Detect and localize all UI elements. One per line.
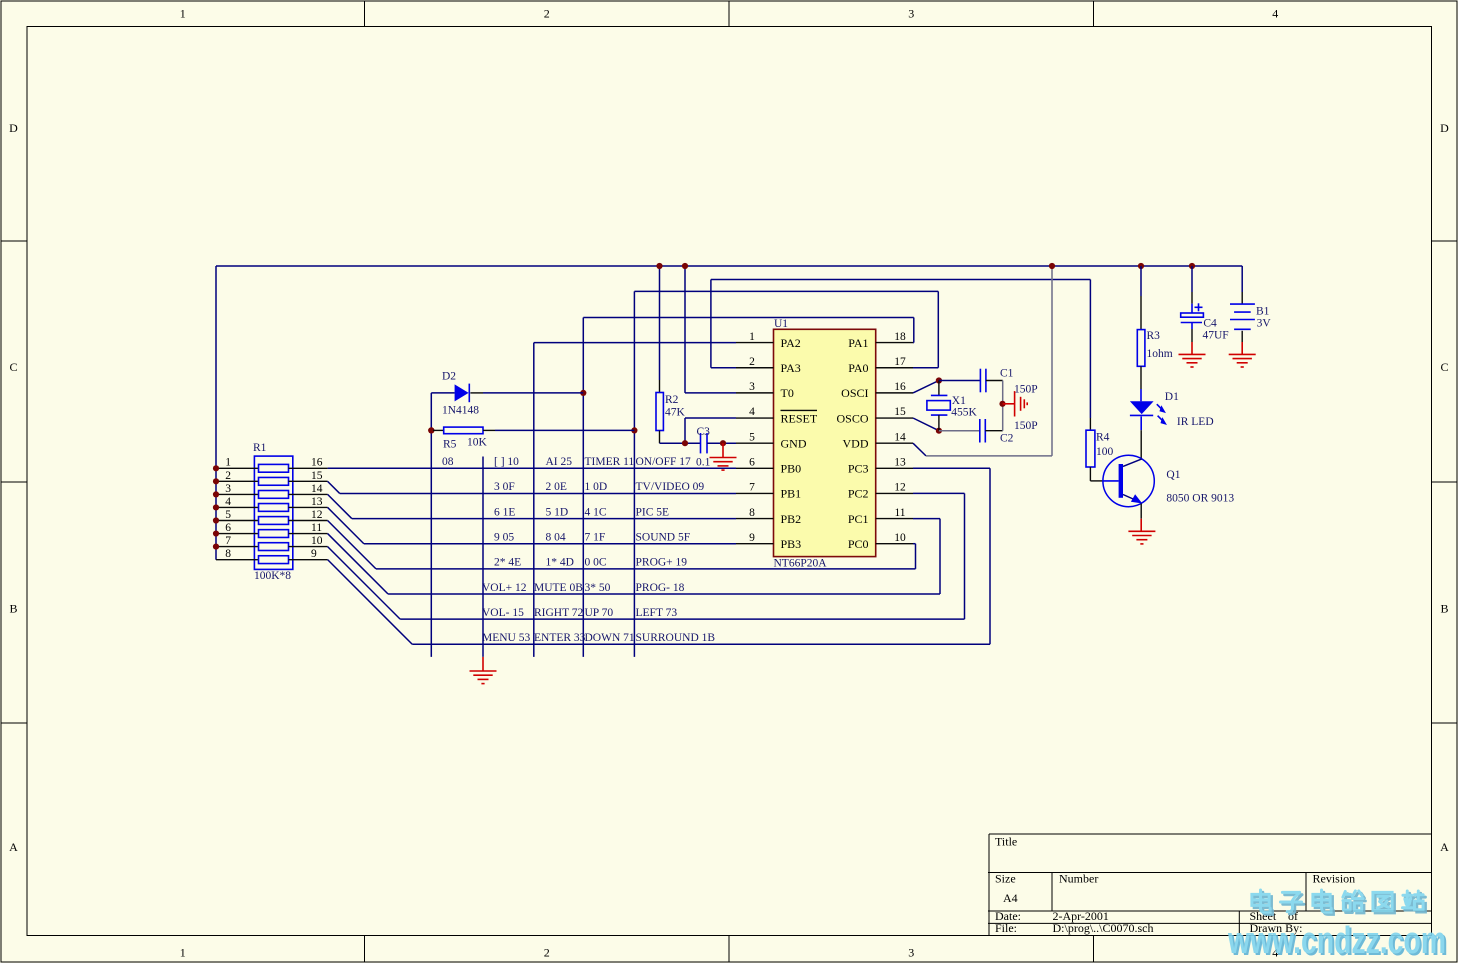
svg-text:ENTER 33: ENTER 33 [534,632,586,644]
svg-text:C2: C2 [1000,433,1014,445]
svg-text:5: 5 [225,509,231,521]
svg-text:www.cndzz.com: www.cndzz.com [1227,920,1446,962]
svg-text:TV/VIDEO 09: TV/VIDEO 09 [636,481,705,493]
svg-text:PB0: PB0 [781,462,802,476]
svg-text:100K*8: 100K*8 [254,570,291,582]
svg-text:PA3: PA3 [781,361,801,375]
svg-text:0 0C: 0 0C [585,557,607,569]
svg-text:13: 13 [311,496,323,508]
svg-text:0.1: 0.1 [696,456,711,468]
svg-text:3* 50: 3* 50 [585,582,611,594]
svg-text:RESET: RESET [781,411,818,425]
svg-text:SOUND 5F: SOUND 5F [636,532,691,544]
svg-text:Revision: Revision [1313,871,1356,885]
svg-text:455K: 455K [951,406,977,418]
svg-text:5 1D: 5 1D [546,506,569,518]
svg-text:1* 4D: 1* 4D [546,557,574,569]
svg-text:2* 4E: 2* 4E [494,557,521,569]
svg-text:08: 08 [442,456,454,468]
svg-text:6 1E: 6 1E [494,506,515,518]
svg-text:2: 2 [749,356,755,368]
svg-text:9 05: 9 05 [494,532,514,544]
svg-text:11: 11 [894,507,905,519]
svg-text:14: 14 [311,483,323,495]
svg-text:B: B [1440,602,1448,616]
svg-text:LEFT 73: LEFT 73 [636,607,678,619]
svg-text:R3: R3 [1147,330,1161,342]
svg-text:PA2: PA2 [781,336,801,350]
svg-text:B1: B1 [1256,305,1270,317]
svg-text:4: 4 [1272,7,1278,21]
svg-text:[ ] 10: [ ] 10 [494,456,519,468]
svg-text:VOL- 15: VOL- 15 [482,607,524,619]
svg-text:PC3: PC3 [848,462,869,476]
svg-text:GND: GND [781,436,807,450]
svg-text:PA1: PA1 [848,336,868,350]
svg-text:150P: 150P [1014,420,1038,432]
svg-text:12: 12 [311,509,323,521]
svg-text:DOWN 71: DOWN 71 [585,632,635,644]
svg-text:U1: U1 [774,318,788,330]
svg-text:D:\prog\..\C0070.sch: D:\prog\..\C0070.sch [1053,921,1154,935]
svg-text:3V: 3V [1257,317,1272,329]
svg-text:D: D [9,121,18,135]
svg-text:7: 7 [225,535,231,547]
svg-text:16: 16 [311,457,323,469]
svg-text:8: 8 [749,507,755,519]
svg-text:4 1C: 4 1C [585,506,607,518]
svg-text:3 0F: 3 0F [494,481,515,493]
svg-text:7: 7 [749,482,755,494]
svg-text:1N4148: 1N4148 [442,405,479,417]
svg-text:9: 9 [311,548,317,560]
svg-text:RIGHT 72: RIGHT 72 [534,607,584,619]
svg-text:1 0D: 1 0D [585,481,608,493]
svg-text:VDD: VDD [843,436,869,450]
svg-text:D1: D1 [1165,391,1179,403]
svg-text:D2: D2 [442,371,456,383]
svg-text:3: 3 [908,946,914,960]
svg-text:8: 8 [225,548,231,560]
svg-text:6: 6 [749,457,755,469]
svg-text:X1: X1 [952,395,966,407]
svg-text:8050 OR 9013: 8050 OR 9013 [1166,492,1234,504]
svg-text:R2: R2 [665,394,679,406]
svg-text:R4: R4 [1096,432,1110,444]
svg-text:3: 3 [908,7,914,21]
svg-text:Q1: Q1 [1166,469,1180,481]
svg-text:AI 25: AI 25 [546,456,573,468]
svg-text:13: 13 [894,457,906,469]
svg-text:7 1F: 7 1F [585,532,606,544]
svg-text:16: 16 [894,381,906,393]
svg-text:2 0E: 2 0E [546,481,567,493]
svg-text:10: 10 [894,532,906,544]
svg-text:17: 17 [894,356,906,368]
svg-text:2: 2 [544,7,550,21]
svg-text:1: 1 [749,331,755,343]
svg-text:R5: R5 [443,438,457,450]
svg-text:C3: C3 [697,426,711,438]
svg-text:ON/OFF 17: ON/OFF 17 [636,456,692,468]
svg-text:1: 1 [225,457,231,469]
svg-text:PA0: PA0 [848,361,868,375]
svg-text:PROG+ 19: PROG+ 19 [636,557,688,569]
svg-text:1: 1 [180,7,186,21]
svg-text:2: 2 [544,946,550,960]
svg-text:Title: Title [995,835,1017,849]
svg-text:C1: C1 [1000,368,1014,380]
svg-text:A4: A4 [1003,891,1018,905]
svg-text:UP 70: UP 70 [585,607,614,619]
svg-text:PC0: PC0 [848,537,869,551]
svg-text:150P: 150P [1014,384,1038,396]
svg-text:A: A [1440,840,1449,854]
svg-text:OSCI: OSCI [841,386,868,400]
svg-text:OSCO: OSCO [836,411,868,425]
svg-text:File:: File: [995,921,1017,935]
svg-text:MUTE 0B: MUTE 0B [534,582,583,594]
svg-text:TIMER 11: TIMER 11 [585,456,635,468]
svg-text:T0: T0 [781,386,794,400]
svg-text:PIC 5E: PIC 5E [636,506,670,518]
svg-text:15: 15 [311,470,323,482]
svg-text:15: 15 [894,406,906,418]
svg-text:12: 12 [894,482,906,494]
svg-text:4: 4 [749,406,755,418]
svg-text:PB3: PB3 [781,537,802,551]
svg-text:C4: C4 [1203,317,1217,329]
svg-text:1: 1 [180,946,186,960]
svg-text:4: 4 [225,496,231,508]
svg-text:10K: 10K [467,436,488,448]
svg-text:C: C [9,360,17,374]
svg-text:8 04: 8 04 [546,532,566,544]
svg-text:3: 3 [749,381,755,393]
svg-text:1ohm: 1ohm [1147,348,1173,360]
svg-text:B: B [9,602,17,616]
svg-text:VOL+ 12: VOL+ 12 [482,582,527,594]
svg-text:D: D [1440,121,1449,135]
svg-text:47UF: 47UF [1203,329,1229,341]
svg-text:NT66P20A: NT66P20A [774,558,828,570]
svg-text:PB1: PB1 [781,487,802,501]
svg-text:2: 2 [225,470,231,482]
svg-text:Number: Number [1059,871,1098,885]
svg-text:PC2: PC2 [848,487,869,501]
svg-text:10: 10 [311,535,323,547]
svg-text:11: 11 [311,522,322,534]
svg-text:PB2: PB2 [781,512,802,526]
svg-text:47K: 47K [665,406,686,418]
svg-text:A: A [9,840,18,854]
svg-text:IR LED: IR LED [1177,416,1214,428]
svg-text:5: 5 [749,431,755,443]
svg-text:100: 100 [1096,446,1114,458]
svg-text:14: 14 [894,431,906,443]
svg-text:C: C [1440,360,1448,374]
svg-text:R1: R1 [253,442,267,454]
svg-text:18: 18 [894,331,906,343]
svg-text:PROG- 18: PROG- 18 [636,582,685,594]
svg-text:MENU 53: MENU 53 [482,632,530,644]
svg-text:9: 9 [749,532,755,544]
svg-text:SURROUND 1B: SURROUND 1B [636,632,716,644]
svg-text:3: 3 [225,483,231,495]
svg-text:6: 6 [225,522,231,534]
svg-text:Size: Size [995,872,1016,886]
svg-text:PC1: PC1 [848,512,869,526]
